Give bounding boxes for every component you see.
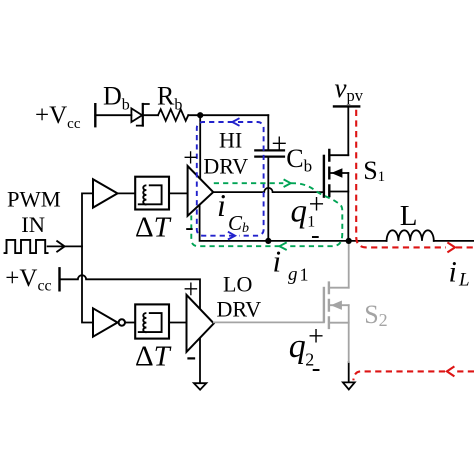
svg-text:i: i bbox=[273, 244, 282, 279]
svg-text:ΔT: ΔT bbox=[135, 340, 172, 372]
svg-text:-: - bbox=[312, 353, 321, 382]
svg-text:ΔT: ΔT bbox=[135, 211, 172, 243]
svg-text:DRV: DRV bbox=[217, 297, 262, 322]
svg-text:i: i bbox=[449, 255, 457, 288]
svg-text:-: - bbox=[185, 214, 193, 241]
svg-text:i: i bbox=[217, 187, 226, 223]
svg-text:+: + bbox=[271, 129, 287, 160]
svg-text:IN: IN bbox=[21, 212, 45, 237]
svg-text:HI: HI bbox=[219, 128, 242, 153]
svg-text:+: + bbox=[183, 143, 198, 172]
svg-text:L: L bbox=[400, 200, 418, 232]
svg-text:PWM: PWM bbox=[7, 187, 61, 212]
svg-text:DRV: DRV bbox=[203, 154, 248, 179]
svg-text:q: q bbox=[291, 194, 308, 230]
svg-text:q: q bbox=[289, 328, 306, 365]
svg-text:+: + bbox=[308, 321, 324, 352]
svg-text:-: - bbox=[186, 340, 196, 373]
svg-text:-: - bbox=[311, 221, 320, 250]
svg-text:L: L bbox=[458, 269, 470, 290]
svg-text:+: + bbox=[309, 189, 325, 220]
svg-text:g: g bbox=[288, 264, 298, 285]
svg-text:LO: LO bbox=[223, 271, 252, 296]
svg-text:+: + bbox=[183, 274, 198, 304]
svg-text:1: 1 bbox=[300, 264, 309, 284]
